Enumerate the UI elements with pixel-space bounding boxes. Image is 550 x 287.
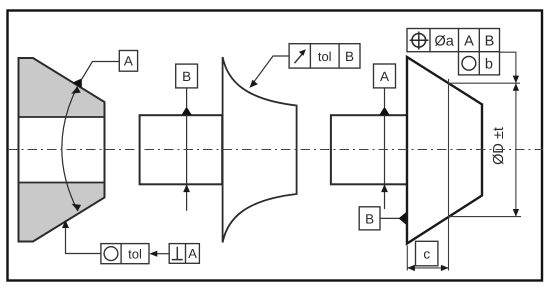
- leader from B box to datum triangle: [380, 217, 400, 219]
- svg-text:c: c: [423, 246, 430, 261]
- datum label B box above cylinder: [176, 64, 198, 88]
- svg-text:A: A: [380, 69, 389, 84]
- flared part (runout toleranced): [223, 57, 297, 243]
- perpendicularity feature control frame (A): [169, 244, 199, 264]
- leader from B box to datum triangle: [186, 88, 188, 107]
- extension line from cone small end: [406, 246, 408, 271]
- circularity feature control frame (tol): [101, 244, 149, 264]
- top extension line for diameter D: [449, 82, 521, 84]
- dimension label c box: [416, 241, 438, 265]
- leader to datum A box: [82, 62, 120, 80]
- centerline (axis): [8, 149, 543, 151]
- small cylinder (datum B feature): [140, 115, 223, 184]
- svg-text:A: A: [464, 33, 474, 49]
- line through cylinder with arrow at bottom surface: [183, 115, 190, 211]
- leader from position frame to dimension line: [500, 52, 520, 83]
- svg-text:B: B: [345, 49, 354, 64]
- leader from A box to datum triangle: [384, 88, 386, 107]
- svg-text:tol: tol: [128, 246, 142, 261]
- datum label A box: [119, 51, 137, 72]
- second small cylinder (datum A feature, right): [331, 115, 407, 184]
- bottom extension line for diameter D: [449, 216, 522, 218]
- svg-text:A: A: [188, 246, 197, 261]
- svg-text:Øa: Øa: [435, 33, 455, 49]
- svg-text:A: A: [124, 54, 133, 69]
- datum A triangle on cone surface: [72, 78, 81, 88]
- datum B triangle on cone shoulder face: [399, 212, 406, 224]
- diameter dimension line with arrows: [513, 83, 519, 216]
- cone part (datum A feature): [19, 58, 105, 242]
- svg-text:B: B: [182, 69, 191, 84]
- svg-text:ØD ±t: ØD ±t: [491, 127, 507, 165]
- position feature control frame (position Øa A B): [407, 29, 500, 52]
- circularity frame (b) below position frame: [459, 52, 500, 75]
- conical part (right, toleranced cone): [407, 57, 482, 244]
- datum label B box left of cone: [359, 207, 380, 230]
- leader from circularity frame to cone bottom surface: [62, 220, 101, 254]
- svg-text:tol: tol: [318, 49, 332, 64]
- svg-text:B: B: [365, 211, 374, 226]
- dimension line c with arrows: [407, 265, 448, 271]
- leader from runout frame to flare surface: [250, 56, 290, 88]
- line through right cylinder with arrow at bottom surface: [381, 115, 388, 209]
- arrow from perpendicularity frame to circularity frame: [149, 251, 169, 257]
- svg-text:b: b: [485, 57, 493, 73]
- svg-text:B: B: [485, 33, 495, 49]
- datum label A box above right cylinder: [374, 64, 396, 88]
- extension line at cone measuring plane: [448, 79, 450, 271]
- circular runout feature control frame (tol B): [289, 44, 360, 68]
- datum B triangle on cylinder top: [181, 107, 192, 116]
- datum A triangle on right cylinder top: [379, 107, 390, 116]
- double-arrow arc across cone surfaces: [62, 87, 81, 212]
